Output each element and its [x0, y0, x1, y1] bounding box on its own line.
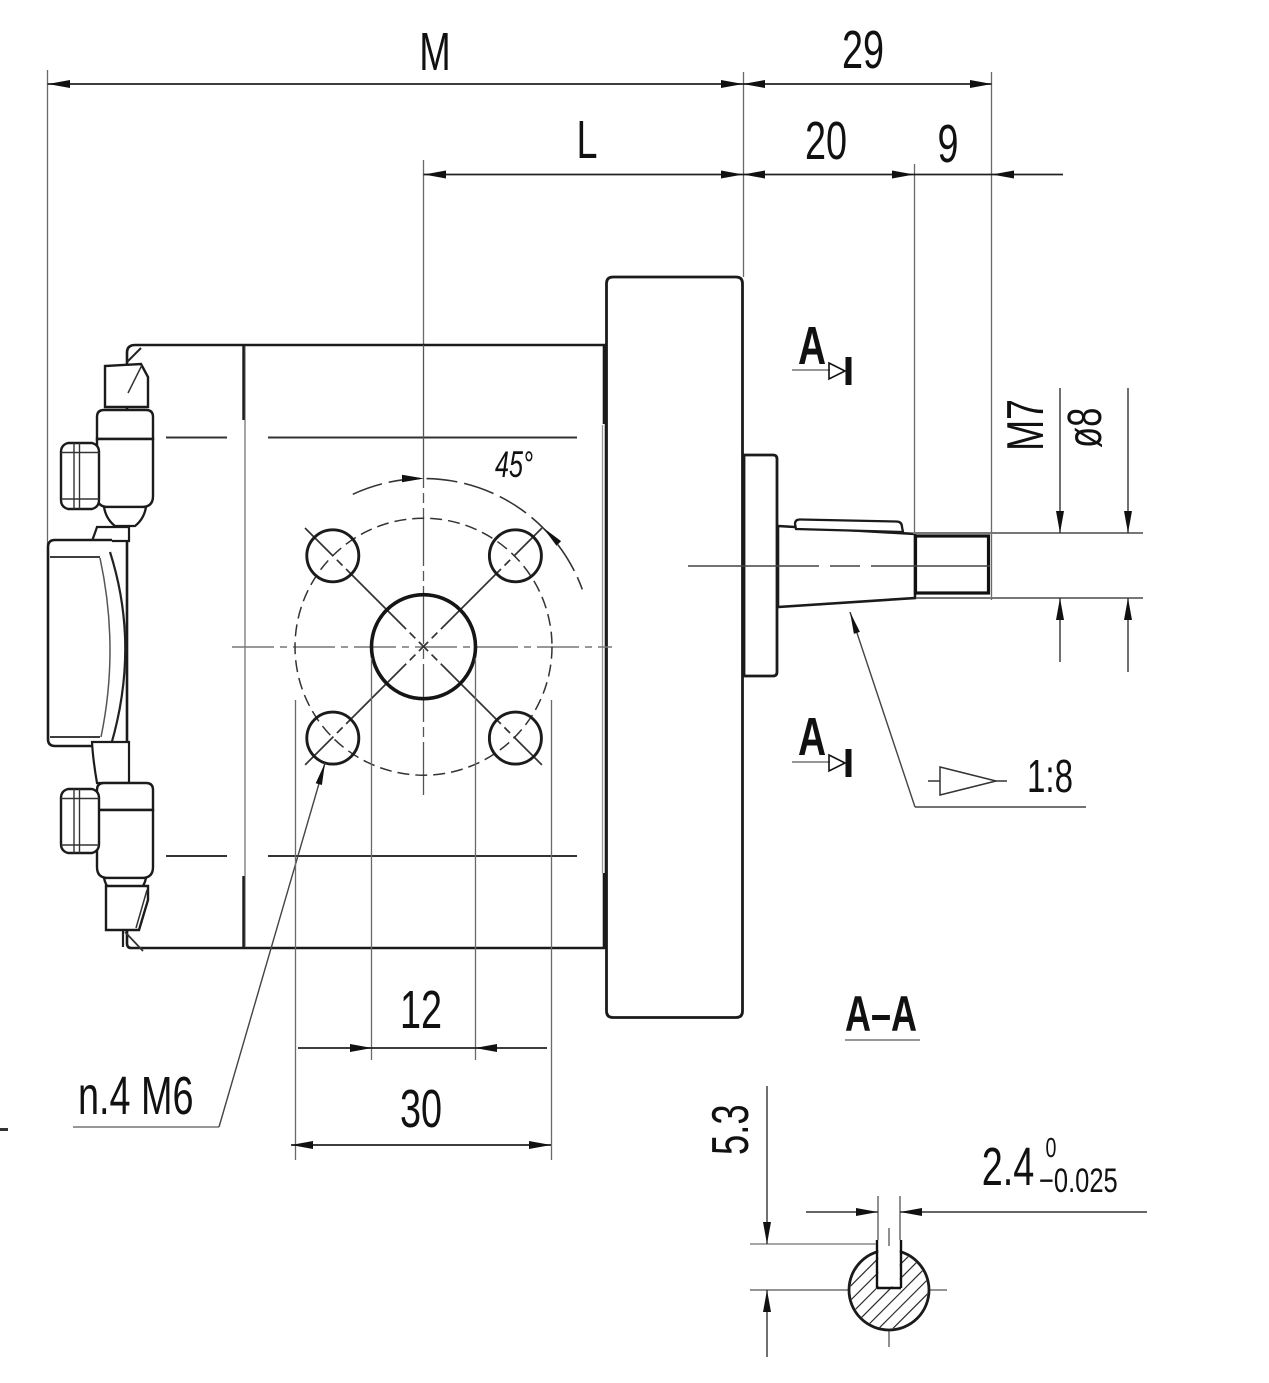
- svg-text:30: 30: [400, 1078, 442, 1138]
- svg-text:9: 9: [937, 113, 958, 173]
- svg-text:M7: M7: [996, 399, 1055, 451]
- svg-text:n.4 M6: n.4 M6: [78, 1065, 194, 1125]
- svg-text:L: L: [576, 109, 597, 169]
- svg-text:1:8: 1:8: [1027, 752, 1073, 802]
- svg-text:20: 20: [805, 110, 847, 170]
- svg-text:−0.025: −0.025: [1039, 1163, 1118, 1200]
- svg-text:12: 12: [400, 979, 442, 1039]
- svg-text:45°: 45°: [495, 443, 533, 485]
- svg-text:29: 29: [842, 19, 884, 79]
- svg-text:A–A: A–A: [845, 987, 917, 1042]
- svg-text:2.4: 2.4: [982, 1136, 1035, 1196]
- svg-text:A: A: [798, 315, 826, 376]
- svg-text:0: 0: [1046, 1133, 1057, 1164]
- svg-text:A: A: [798, 706, 826, 767]
- svg-text:ø8: ø8: [1057, 408, 1111, 448]
- svg-text:M: M: [419, 21, 450, 81]
- svg-text:5.3: 5.3: [700, 1104, 759, 1155]
